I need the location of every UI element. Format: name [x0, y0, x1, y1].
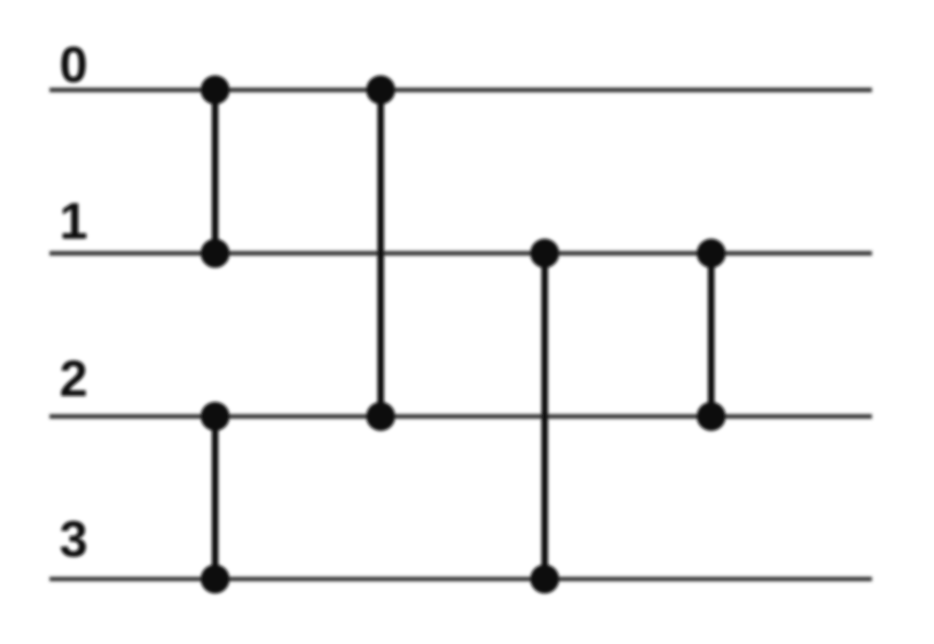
wire 2 — [50, 414, 873, 419]
node (1,3) bottom dot — [530, 565, 559, 594]
svg-text:2: 2 — [59, 350, 87, 407]
comparator (1,2) connector — [708, 253, 715, 416]
node (2,3) bottom dot — [201, 565, 230, 594]
wire 1 — [50, 251, 873, 256]
label 1 foot — [65, 233, 84, 238]
node (0,1) bottom dot — [201, 239, 230, 268]
node (1,2) top dot — [697, 239, 726, 268]
svg-text:0: 0 — [59, 36, 87, 93]
node (2,3) top dot — [201, 402, 230, 431]
svg-text:3: 3 — [59, 510, 87, 567]
comparator (1,3) connector — [541, 253, 548, 579]
node (0,1) top dot — [201, 75, 230, 104]
node (0,2) bottom dot — [366, 402, 395, 431]
svg-text:1: 1 — [59, 193, 87, 250]
comparator (0,2) connector — [377, 90, 384, 417]
node (1,3) top dot — [530, 239, 559, 268]
comparator (2,3) connector — [212, 416, 219, 579]
wire 0 — [50, 88, 873, 93]
node (1,2) bottom dot — [697, 402, 726, 431]
wire 3 — [50, 577, 873, 582]
node (0,2) top dot — [366, 75, 395, 104]
comparator (0,1) connector — [212, 90, 219, 253]
